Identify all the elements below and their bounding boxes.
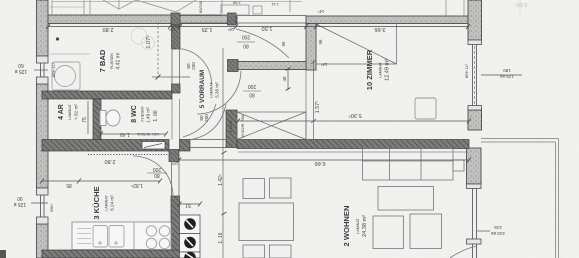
dim line 6.66: [177, 158, 471, 167]
wall bottom kitchen: [42, 250, 180, 258]
zimmer closet: [316, 24, 397, 64]
dim line kitchen 85 / 1.825: [40, 179, 162, 189]
armchair 1: [373, 216, 404, 249]
kitchen counter: [72, 222, 171, 250]
jamb bad wall lower: [172, 84, 181, 93]
door arc wohnen: [191, 104, 226, 140]
room label KUECHE: [92, 186, 115, 219]
right wall window dims: [465, 64, 522, 79]
jamb entry right: [228, 13, 237, 25]
door arc corridor band: [197, 71, 241, 114]
zimmer stool: [415, 98, 436, 119]
wall divider small left stub: [180, 140, 191, 152]
bar stools: [180, 215, 201, 258]
wall right exterior top block: [468, 0, 482, 40]
door arc bad: [133, 29, 477, 258]
door arc kitchen: [133, 156, 173, 196]
wall zimmer wohnen divider: [237, 140, 469, 149]
dim vertical dining 1.425 1.16: [218, 48, 227, 258]
dotted line kitchen top: [88, 154, 171, 156]
white inset in WC wall: [142, 142, 165, 150]
wall corridor lower band: [228, 62, 306, 70]
wall BAD bottom dark: [42, 91, 469, 258]
wall top B right section: [306, 16, 468, 24]
door arc wc: [183, 104, 216, 137]
neighbour texts above wall: [198, 0, 279, 13]
wall left exterior mid segment: [37, 84, 49, 188]
balcony rail: [481, 139, 559, 258]
wall AR right: [93, 99, 101, 141]
entry door threshold: [180, 15, 228, 17]
wall wardrobe post: [226, 110, 237, 148]
dining table: [239, 203, 294, 241]
BAD small dot: [56, 37, 59, 40]
dining chairs bottom: [243, 245, 265, 258]
dim 75 AR: [82, 101, 88, 134]
door arc zimmer: [236, 29, 289, 58]
dim 51 stools: [178, 202, 203, 209]
dim 1.075 vertical in BAD: [145, 22, 190, 80]
door arc balcony: [450, 246, 477, 258]
wall WC kitchen divider: [42, 140, 169, 152]
wc door opening lines: [171, 99, 173, 140]
armchair 2: [410, 214, 442, 249]
room label AR: [58, 104, 79, 120]
wall right pier wohnen: [467, 148, 482, 184]
wardrobe labels: [229, 114, 245, 137]
dim 1.49 WC: [99, 131, 168, 137]
window right wohnen: [467, 184, 482, 258]
room label VORRAUM: [199, 70, 220, 108]
sink basins: [93, 226, 124, 248]
dim line 5.305: [236, 112, 471, 124]
neighbour strip above top wall: [52, 0, 464, 16]
dim 48: [282, 68, 291, 91]
bad door opening lines: [171, 49, 173, 84]
left dim 60 125: [14, 62, 56, 77]
room label ZIMMER: [365, 49, 391, 90]
coffee table: [378, 187, 434, 211]
dimension texts top (upside down): [103, 9, 386, 67]
room label WOHNEN: [342, 206, 368, 247]
thin room boundary lines: [172, 16, 307, 197]
stove circles: [146, 226, 169, 249]
corridor right boundary below band: [305, 70, 307, 140]
zimmer door opening threshold lines: [236, 15, 306, 17]
BAD shelf line: [48, 53, 90, 55]
wall right exterior mid block: [468, 110, 482, 130]
kitchen door opening lines: [171, 162, 173, 197]
BAD vanity: [52, 62, 80, 90]
dishwasher lines: [77, 222, 134, 250]
wardrobe corridor: [237, 112, 306, 140]
left bottom dark blob: [0, 250, 6, 258]
WC toilet: [100, 110, 120, 126]
dim 1.575 zimmer line: [313, 60, 315, 140]
line below divider wall: [238, 151, 468, 153]
wall step connector: [306, 24, 316, 71]
jamb corridor band: [228, 60, 239, 72]
left dim 90 125: [13, 195, 54, 212]
BAD ghost circles: [131, 28, 155, 50]
window right zimmer: [468, 40, 482, 110]
jamb kitchen door top: [169, 150, 179, 162]
jamb bad door top: [169, 13, 238, 162]
room label WC: [131, 105, 159, 123]
wall kitchen dining divider: [171, 196, 180, 258]
sofa: [363, 148, 465, 180]
dimension line top: [46, 24, 470, 29]
door label 80/200 bad: [186, 62, 196, 70]
wohnen door opening: [190, 139, 226, 141]
wall top A: [48, 15, 237, 24]
window left kitchen: [37, 188, 49, 224]
door label 80/200 wohnen door: [199, 114, 209, 122]
wall left exterior lower segment: [37, 224, 49, 258]
room label BAD: [98, 49, 122, 72]
wall left exterior upper segment: [37, 0, 482, 258]
window left BAD: [37, 56, 49, 84]
jamb bad wall upper: [172, 25, 181, 49]
dining chairs top: [239, 178, 294, 258]
faint 3.805 top right: [514, 0, 527, 14]
